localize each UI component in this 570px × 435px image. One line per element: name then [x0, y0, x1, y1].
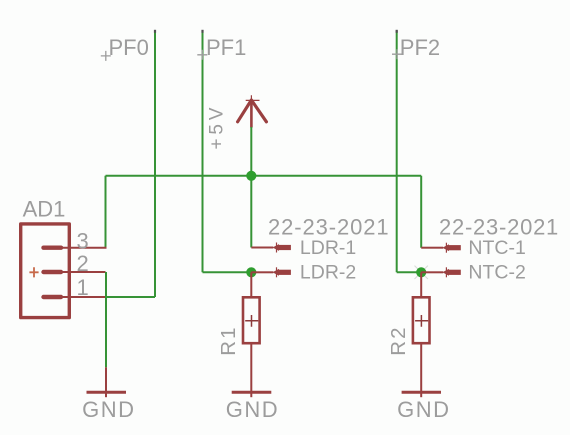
svg-text:AD1: AD1 — [23, 196, 66, 221]
ground GND1 — [87, 367, 127, 397]
ground GND2 — [232, 391, 272, 394]
wire rail drop to AD1 pin 3 — [105, 176, 107, 249]
resistor R2 origin cross — [415, 315, 428, 327]
svg-text:LDR-2: LDR-2 — [300, 262, 356, 284]
wire PF0 vertical — [154, 31, 156, 298]
ground GND3 — [402, 391, 441, 394]
svg-text:3: 3 — [77, 229, 89, 254]
svg-text:NTC-1: NTC-1 — [468, 237, 525, 259]
svg-text:PF0: PF0 — [109, 35, 149, 60]
AD1 pin 2 — [44, 270, 106, 274]
junction +5V rail — [246, 171, 256, 181]
svg-text:R2: R2 — [387, 325, 410, 355]
wire PF0 top tip — [154, 30, 156, 33]
net stub LDR-2 arrow — [251, 267, 291, 277]
svg-text:1: 1 — [77, 275, 89, 300]
wire PF1 to LDR junction — [203, 271, 252, 273]
wire PF2 vertical — [396, 31, 398, 273]
svg-text:GND: GND — [226, 397, 279, 422]
junction LDR divider — [246, 267, 256, 277]
svg-text:NTC-2: NTC-2 — [468, 262, 525, 284]
resistor R1 origin cross — [245, 315, 258, 327]
wire rail drop to LDR-1 — [250, 176, 252, 248]
wire junction to R2 — [420, 272, 422, 297]
wire R1 to GND — [250, 343, 252, 397]
wire PF0 to AD1 pin 1 — [106, 296, 156, 298]
wire junction to R1 — [250, 272, 252, 297]
svg-text:PF2: PF2 — [400, 35, 440, 60]
wire R2 to GND — [420, 343, 422, 397]
net stub NTC-1 arrow — [421, 243, 461, 253]
resistor R2 — [413, 297, 430, 343]
svg-text:GND: GND — [397, 397, 450, 422]
svg-text:R1: R1 — [217, 325, 240, 355]
supply +5V symbol — [238, 95, 267, 127]
svg-text:2: 2 — [77, 251, 89, 276]
wire PF2 to NTC junction — [397, 271, 422, 273]
wire +5V rail — [106, 175, 422, 177]
wire PF1 vertical — [202, 31, 204, 273]
resistor R1 — [243, 297, 260, 343]
net label PF1 origin cross — [197, 50, 207, 60]
net stub NTC-2 arrow — [421, 267, 461, 277]
wire +5V stem — [250, 127, 252, 176]
svg-text:LDR-1: LDR-1 — [300, 237, 356, 259]
connector AD1 outline — [21, 224, 70, 318]
AD1 pin 1 — [44, 295, 106, 299]
net stub LDR-1 arrow — [251, 243, 291, 253]
AD1 pin 3 — [44, 245, 107, 249]
svg-text:+5V: +5V — [207, 104, 228, 150]
junction NTC divider — [416, 267, 426, 277]
net label PF2 origin cross — [392, 49, 402, 59]
svg-text:22-23-2021: 22-23-2021 — [439, 214, 559, 239]
svg-text:GND: GND — [82, 397, 135, 422]
wire AD1 pin 2 to GND — [105, 272, 107, 367]
wire rail drop to NTC-1 — [420, 176, 422, 248]
svg-text:22-23-2021: 22-23-2021 — [268, 214, 390, 239]
net label PF0 origin cross — [101, 51, 111, 61]
AD1 origin cross — [29, 267, 38, 277]
wire PF2 top tip — [396, 30, 398, 33]
wire PF1 top tip — [201, 30, 203, 33]
junction NTC divider origin mark — [415, 266, 428, 279]
svg-text:PF1: PF1 — [206, 35, 246, 60]
